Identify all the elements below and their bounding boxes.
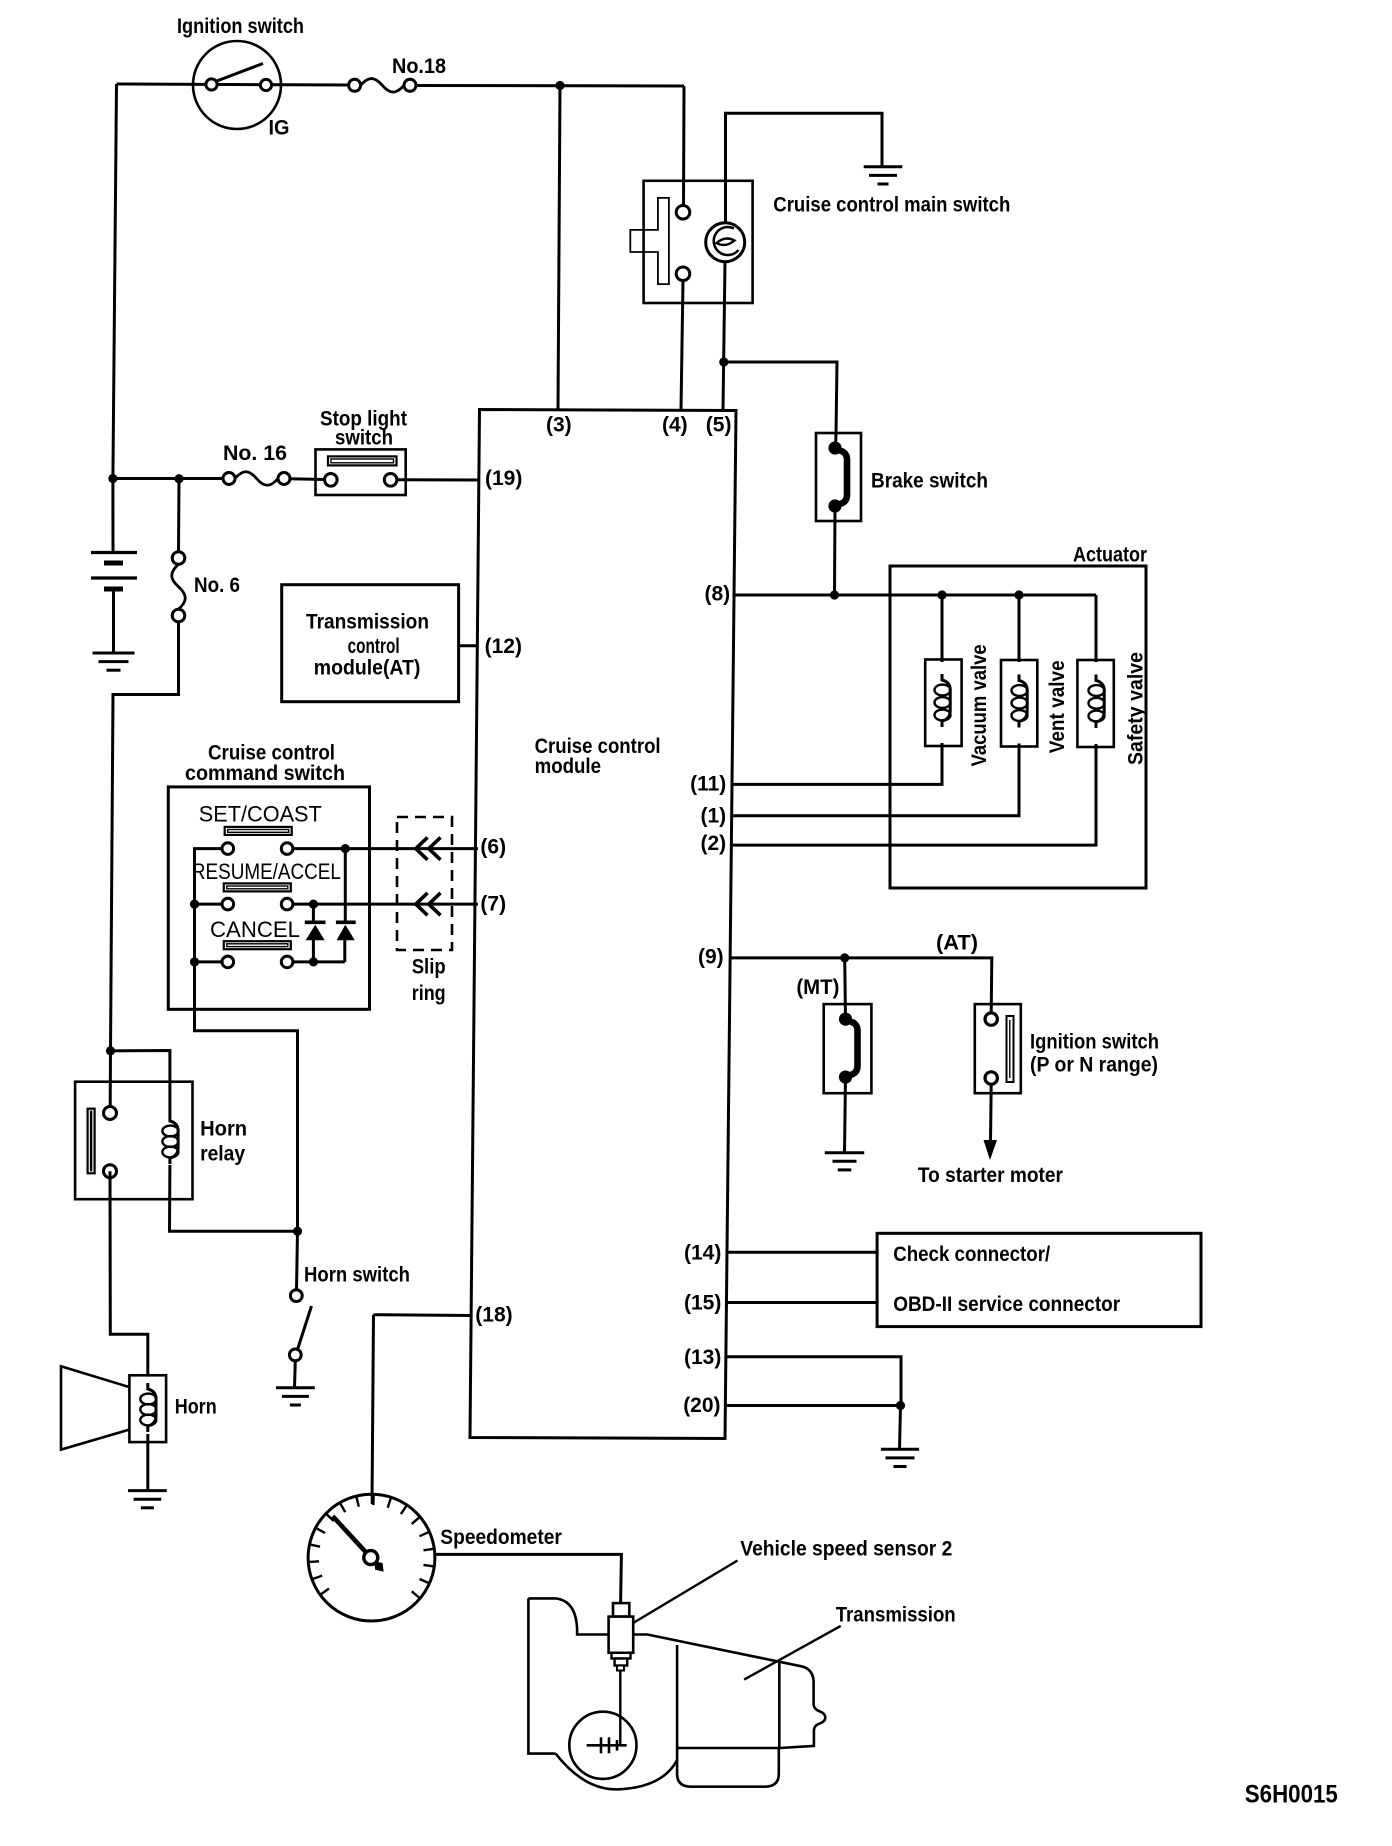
slip ring (dashed) [397, 817, 452, 950]
svg-text:IG: IG [269, 117, 290, 140]
contact slot SET/COAST [225, 827, 292, 835]
wire: pin (5) drop [723, 262, 725, 410]
wire: to battery [111, 479, 114, 552]
svg-text:Safety valve: Safety valve [1125, 652, 1148, 765]
svg-text:No.18: No.18 [392, 55, 446, 78]
svg-text:(15): (15) [684, 1292, 721, 1315]
node: bus/CANCEL row [190, 957, 199, 966]
svg-text:(20): (20) [683, 1394, 720, 1417]
svg-text:Cruise control main switch: Cruise control main switch [773, 194, 1010, 217]
ground (battery) [93, 652, 135, 655]
wire: No.16 line [113, 477, 224, 480]
horn [61, 1366, 166, 1449]
wire: sensor shaft [619, 1670, 621, 1746]
wire: fuse to stop light switch [290, 477, 326, 481]
wire: battery feed left vertical [113, 84, 117, 479]
node: pin5/brake branch [719, 357, 728, 366]
horn switch [289, 1290, 311, 1361]
cruise control main switch [630, 181, 752, 303]
transmission outline [528, 1598, 825, 1789]
svg-text:(2): (2) [701, 832, 727, 855]
wire: RESUME row to pin (7) [293, 903, 478, 906]
svg-text:(9): (9) [698, 946, 724, 969]
switch contacts (6 terminals) [222, 843, 293, 968]
wire: drop to cruise main switch pin [682, 86, 686, 206]
svg-text:To starter moter: To starter moter [918, 1164, 1063, 1187]
svg-text:(6): (6) [480, 836, 506, 859]
node: junction top wire / pin3 [555, 81, 564, 90]
horn relay [75, 1082, 192, 1200]
node: bus / coil / horn switch [293, 1227, 302, 1236]
vent valve [1001, 660, 1037, 747]
wire: top horizontal from ignition switch to module [117, 84, 350, 85]
svg-text:command switch: command switch [185, 762, 345, 785]
wire: SET/COAST row to pin (6) [293, 847, 478, 850]
node: diode D2 top on row 6 [341, 844, 350, 853]
svg-text:control: control [348, 635, 400, 658]
svg-text:(AT): (AT) [936, 932, 978, 955]
slip ring contact chevrons row 6 [416, 837, 428, 859]
ground (horn) [128, 1489, 167, 1492]
svg-text:Actuator: Actuator [1073, 544, 1147, 567]
wire: pin (13) [726, 1357, 902, 1406]
svg-text:(11): (11) [690, 773, 726, 796]
svg-text:Horn: Horn [200, 1118, 247, 1141]
wire: RESUME row left [195, 903, 223, 906]
contact slot RESUME/ACCEL [224, 883, 291, 891]
wire: (18) drop to speedometer [372, 1315, 374, 1504]
svg-text:(19): (19) [485, 467, 522, 490]
wire: MT branch drop [843, 958, 847, 1019]
wire: pin (12) stub [459, 644, 479, 647]
wire: MT switch to ground [845, 1077, 846, 1152]
transmission control module (AT) [282, 585, 459, 702]
ignition switch [193, 41, 281, 129]
node: horn relay feed [106, 1046, 115, 1055]
wire: brake switch to (8) line [833, 506, 837, 595]
diode D2 [336, 849, 356, 962]
slip ring contact chevrons row 7 [416, 893, 428, 915]
brake switch [816, 433, 861, 521]
wire: to horn switch [297, 1231, 298, 1290]
wire: pin (14) [728, 1251, 878, 1254]
wire: vacuum valve top [941, 595, 944, 662]
svg-text:(MT): (MT) [796, 976, 839, 999]
wire: relay contact to horn [110, 1171, 148, 1376]
svg-text:module: module [535, 755, 601, 778]
battery [91, 553, 137, 653]
svg-text:Transmission: Transmission [306, 611, 429, 634]
svg-text:Vacuum valve: Vacuum valve [968, 644, 991, 766]
svg-text:(13): (13) [684, 1346, 721, 1369]
svg-text:Slip: Slip [412, 956, 446, 979]
ground (horn switch) [276, 1386, 315, 1389]
wire: vent valve to pin (1) [733, 744, 1019, 816]
svg-text:(14): (14) [684, 1242, 721, 1265]
cruise control command switch box [168, 787, 369, 1009]
wire: branch to brake switch [724, 362, 837, 434]
wire: speedometer to speed sensor [435, 1554, 622, 1603]
node: bus/RESUME row [190, 900, 199, 909]
svg-text:SET/COAST: SET/COAST [199, 802, 322, 827]
ground (pins 13/20) [881, 1448, 919, 1451]
svg-text:(P or N range): (P or N range) [1030, 1054, 1158, 1077]
wire: relay coil feed [111, 1051, 170, 1116]
wire: to starter motor arrow [989, 1085, 993, 1143]
wire: relay coil to bus [170, 1165, 298, 1231]
ignition switch (P or N range) [975, 1004, 1021, 1093]
svg-text:RESUME/ACCEL: RESUME/ACCEL [192, 859, 341, 884]
svg-text:(12): (12) [485, 635, 522, 658]
vehicle speed sensor 2 [609, 1603, 634, 1670]
wire: pin (15) [727, 1301, 877, 1304]
safety valve [1077, 660, 1113, 747]
wire: stop light switch to pin (19) [397, 478, 480, 481]
svg-text:CANCEL: CANCEL [210, 917, 300, 942]
wire: vacuum valve to pin (11) [733, 743, 942, 784]
svg-text:Ignition switch: Ignition switch [1030, 1031, 1159, 1054]
node: fuse No.6 branch [174, 474, 183, 483]
svg-text:(4): (4) [662, 414, 688, 437]
svg-text:Check connector/: Check connector/ [893, 1243, 1050, 1266]
ground (main switch) [864, 165, 903, 168]
svg-text:ring: ring [412, 982, 446, 1005]
svg-text:module(AT): module(AT) [314, 657, 421, 680]
svg-text:(5): (5) [706, 414, 732, 437]
torque converter [569, 1712, 636, 1779]
svg-text:Vehicle speed sensor 2: Vehicle speed sensor 2 [740, 1538, 952, 1561]
node: MT branch [840, 953, 849, 962]
node: brake junction on (8) [830, 590, 839, 599]
wire: pin (3) drop [558, 86, 560, 410]
leader line to sensor [627, 1561, 738, 1628]
speedometer [308, 1494, 435, 1621]
svg-text:No. 6: No. 6 [194, 574, 240, 597]
vacuum valve [925, 660, 961, 747]
svg-text:Horn: Horn [175, 1396, 217, 1419]
svg-text:OBD-II service connector: OBD-II service connector [893, 1293, 1120, 1316]
svg-text:(1): (1) [701, 805, 727, 828]
svg-text:No. 16: No. 16 [223, 442, 287, 465]
contact slot CANCEL [224, 941, 291, 949]
wire: (8) line [734, 594, 1097, 597]
svg-text:S6H0015: S6H0015 [1245, 1781, 1338, 1809]
check connector box [877, 1233, 1201, 1326]
node: vent valve tap [1014, 590, 1023, 599]
stop light switch [316, 449, 406, 495]
node: diode D1 bottom on CANCEL row [309, 957, 318, 966]
svg-text:Horn switch: Horn switch [304, 1264, 410, 1287]
wire: relay contact feed [109, 1051, 112, 1106]
actuator box [890, 566, 1146, 888]
ground (MT switch) [825, 1151, 864, 1154]
leader line to transmission [744, 1626, 841, 1680]
fuse No.16 [223, 472, 290, 486]
svg-text:(7): (7) [480, 893, 506, 916]
wire: lamp to ground [726, 113, 883, 224]
svg-text:Brake switch: Brake switch [871, 470, 988, 493]
cruise control module [470, 410, 736, 1439]
svg-text:switch: switch [335, 427, 393, 450]
node: vacuum valve tap [937, 590, 946, 599]
wire: fuse No.6 down, jog left, lower left vertical [111, 622, 179, 1051]
node: (13)/(20) join [896, 1401, 905, 1410]
wire: safety valve to pin (2) [733, 744, 1096, 845]
svg-text:Ignition switch: Ignition switch [177, 15, 304, 38]
wire: safety valve top [1095, 595, 1098, 662]
wire: pin (20) [725, 1404, 900, 1407]
wire: pin (9) line [730, 958, 992, 1012]
svg-text:Vent valve: Vent valve [1046, 660, 1069, 753]
wire: CANCEL row left [195, 960, 223, 963]
svg-text:relay: relay [200, 1143, 245, 1166]
svg-text:Speedometer: Speedometer [440, 1526, 562, 1549]
oil pan [677, 1748, 779, 1787]
diode D1 [305, 904, 326, 962]
wire: CANCEL row right [293, 960, 345, 963]
svg-text:Transmission: Transmission [836, 1604, 956, 1627]
fuse No.18 [349, 79, 416, 93]
svg-text:(3): (3) [546, 414, 572, 437]
wire: command switch common bus [195, 849, 298, 1232]
wire: horn to ground [146, 1434, 149, 1491]
wire: vent valve top [1018, 595, 1021, 662]
wire: pin (18) line [374, 1313, 471, 1317]
svg-text:(18): (18) [475, 1304, 512, 1327]
node: left vertical / No.16 line [108, 474, 117, 483]
clutch switch (MT) [824, 1004, 872, 1093]
wire: horn switch to ground [293, 1361, 297, 1388]
wire: to ground [900, 1406, 901, 1450]
node: diode D1 top on row 7 [309, 900, 318, 909]
wire: pin (4) drop [681, 281, 683, 410]
fuse No.6 [172, 479, 186, 622]
svg-text:(8): (8) [705, 583, 731, 606]
lamp (illumination) [706, 223, 745, 262]
